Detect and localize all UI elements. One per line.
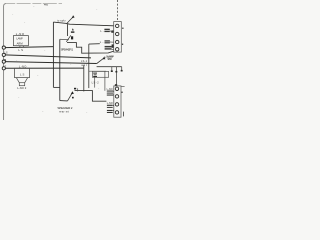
terminal strip TS2 box [114,86,121,117]
resistor block R4 row4 [105,44,114,49]
wire bus above junction box [89,71,106,91]
page border left + top [4,4,7,120]
resistor block R3 row3 [105,40,114,43]
switch S4 output bus [97,66,122,68]
drop wire to terminal strip TS2 [115,67,117,86]
terminal strip TS1 box [114,22,122,52]
resistor block R2 row2 [104,29,113,33]
terminal C on left border [2,60,5,63]
scan speckles [12,6,99,113]
stub at switch S3 right [77,88,79,91]
wire V88 vertical [88,44,90,88]
switch S4 blade and arrow (mid right) [97,57,106,64]
svg-text:T: T [4,64,6,68]
capacitor block C2 rows 7-8 [107,105,113,113]
wire V2 bottom link to switch S3 [60,100,68,102]
wire V1 vertical [52,22,54,87]
wire W4 from terminal D [5,67,84,69]
terminal 6 [115,95,118,98]
svg-text:L-NO: L-NO [107,102,113,105]
svg-text:L-: L- [100,40,104,44]
switch S1 to S2 common link [67,24,69,36]
terminal B on left border [2,53,5,56]
mark right of terminal 3 [122,44,123,45]
svg-text:to spkr: to spkr [57,19,66,23]
svg-text:ant: ant [81,64,87,67]
mark right of terminal 5 [121,92,122,93]
svg-text:L-NO 2: L-NO 2 [17,86,27,90]
wire W2 from terminal B [5,55,91,58]
svg-text:SPEAKER 1: SPEAKER 1 [61,47,74,51]
mark right of terminal 1 [122,28,123,29]
terminal D on left border [2,67,5,70]
loudspeaker unit LS1 box [13,36,28,46]
wire V2 top link to switch S2 [60,38,69,40]
switch S3 output wire [75,91,107,102]
wire V2 vertical [59,39,61,100]
svg-text:L-NO: L-NO [107,88,113,91]
mark right of terminal 8 [123,112,125,117]
svg-text:LS: LS [18,48,23,52]
wire Va vertical [83,65,85,92]
switch S3 blade and arrow (bottom) [68,88,77,101]
svg-text:B: B [4,58,6,62]
svg-text:L-: L- [100,29,104,33]
switch S2 output wire, steps down then right [67,43,114,54]
wire row 3 corner from V88 [89,43,100,45]
capacitor block C2 stubs to strip [113,105,114,110]
terminal 1 [116,24,119,27]
LS2 horn [16,78,27,86]
svg-text:SPKR: SPKR [107,58,112,61]
switch S2 pivot blob [71,36,73,39]
svg-text:LAMP: LAMP [16,37,23,41]
drop wire to plug P2 [121,67,123,72]
wire W1 from terminal A [5,47,54,48]
svg-text:rear mt: rear mt [59,109,69,113]
svg-text:ARM: ARM [17,41,24,45]
capacitor block C1 stubs to strip [112,91,115,95]
terminal 5 [115,87,118,90]
capacitor block C1 rows 5-6 [107,91,113,96]
switch S2 blade [66,35,71,42]
svg-text:LS: LS [4,50,7,54]
loudspeaker unit LS2 box [15,68,30,77]
LS1 horn to wire W1 [19,46,24,48]
terminal 7 [115,103,118,106]
wire W3 from terminal C [5,62,97,64]
wire from junction box down [94,77,96,87]
junction box J1 [92,71,108,77]
wire V1-V2 link [53,86,59,88]
switch S2 upper contact arrow [71,28,75,33]
switch S1 output wire to terminal 1 [67,24,114,26]
terminal 3 [116,40,119,43]
terminal 4 [116,48,119,51]
svg-text:LS-2: LS-2 [92,81,100,84]
paper background [0,0,125,120]
switch S1 blade and arrow [67,15,75,23]
terminal A on left border [2,46,5,49]
wire V1 top horizontal to switch S1 [53,22,66,23]
svg-text:LS-1: LS-1 [81,60,88,63]
dashed wire entering terminal 1 from top [116,0,118,22]
wire exiting right at bottom strip top [121,85,125,87]
drop wire to plug P1 [111,67,113,72]
terminal 8 [115,111,118,114]
svg-text:LS: LS [20,72,25,76]
terminal 2 [116,32,119,35]
